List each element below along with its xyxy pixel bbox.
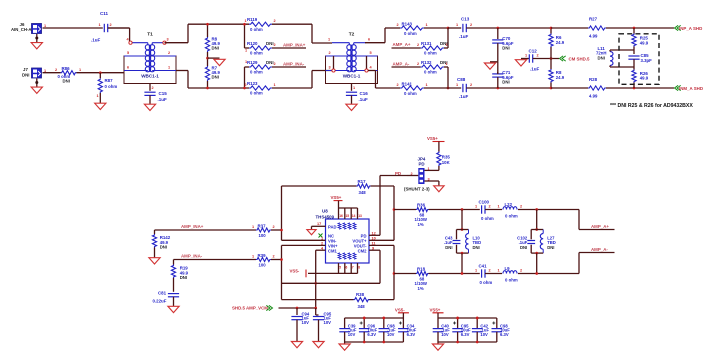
svg-text:2: 2 — [470, 23, 472, 27]
svg-text:1: 1 — [525, 54, 527, 58]
svg-text:6.3V: 6.3V — [407, 332, 416, 337]
svg-text:100: 100 — [259, 233, 267, 238]
svg-text:15: 15 — [346, 214, 350, 218]
svg-text:.1uF: .1uF — [91, 38, 101, 43]
svg-text:10K: 10K — [442, 160, 451, 165]
svg-text:0 ohm: 0 ohm — [250, 27, 263, 32]
svg-text:10V: 10V — [324, 320, 332, 325]
svg-text:WBC1-1: WBC1-1 — [343, 74, 361, 79]
svg-text:.1uF: .1uF — [459, 94, 469, 99]
svg-text:R39: R39 — [258, 253, 267, 258]
svg-text:6: 6 — [127, 66, 129, 70]
svg-text:DNI: DNI — [473, 245, 480, 250]
svg-text:.1uF: .1uF — [158, 97, 168, 102]
svg-text:2: 2 — [537, 54, 539, 58]
svg-text:2: 2 — [55, 68, 57, 72]
svg-text:C11: C11 — [100, 11, 109, 16]
svg-text:AIN_CH-A: AIN_CH-A — [11, 27, 32, 32]
svg-text:8: 8 — [358, 265, 360, 269]
svg-text:1: 1 — [328, 38, 330, 42]
svg-text:C15: C15 — [159, 91, 168, 96]
svg-text:6.3V: 6.3V — [500, 332, 509, 337]
svg-text:17: 17 — [317, 222, 321, 226]
svg-text:2: 2 — [245, 83, 247, 87]
svg-text:R27: R27 — [589, 17, 598, 22]
svg-text:AMP_INA-: AMP_INA- — [181, 254, 203, 259]
svg-text:DNI: DNI — [266, 60, 274, 65]
svg-text:13: 13 — [358, 214, 362, 218]
svg-text:VS5-: VS5- — [290, 268, 300, 273]
svg-text:0 ohm: 0 ohm — [250, 91, 263, 96]
svg-text:T2: T2 — [349, 32, 355, 38]
svg-text:R119: R119 — [247, 17, 258, 22]
svg-text:U8: U8 — [322, 209, 328, 214]
svg-text:T1: T1 — [147, 32, 153, 38]
svg-text:1: 1 — [446, 43, 448, 47]
svg-text:10V: 10V — [387, 332, 395, 337]
svg-text:C88: C88 — [457, 77, 466, 82]
svg-text:INM_A SHD: INM_A SHD — [679, 86, 703, 91]
svg-text:0 ohm: 0 ohm — [250, 51, 263, 56]
svg-text:R141: R141 — [402, 81, 413, 86]
svg-text:1: 1 — [475, 269, 477, 273]
svg-text:0 ohm: 0 ohm — [250, 70, 263, 75]
svg-text:WBC1-1: WBC1-1 — [141, 74, 159, 79]
svg-text:CM2: CM2 — [358, 248, 368, 253]
svg-text:2: 2 — [329, 51, 331, 55]
svg-text:49.9: 49.9 — [640, 40, 649, 45]
svg-text:1: 1 — [245, 19, 247, 23]
svg-text:6.3V: 6.3V — [461, 332, 470, 337]
svg-text:7: 7 — [352, 265, 354, 269]
svg-text:2: 2 — [274, 43, 276, 47]
svg-text:VS5+: VS5+ — [430, 307, 441, 312]
svg-text:4.99: 4.99 — [589, 94, 598, 99]
svg-text:3: 3 — [167, 38, 169, 42]
svg-text:DNI: DNI — [547, 245, 554, 250]
svg-text:16: 16 — [339, 214, 343, 218]
svg-text:1%: 1% — [418, 222, 424, 227]
svg-text:1: 1 — [252, 225, 254, 229]
svg-text:L22: L22 — [505, 202, 513, 207]
svg-text:R87: R87 — [105, 78, 114, 83]
svg-text:0 ohm: 0 ohm — [424, 51, 437, 56]
svg-text:DNI: DNI — [212, 46, 219, 51]
svg-text:2: 2 — [168, 51, 170, 55]
svg-text:0.22uF: 0.22uF — [153, 299, 167, 304]
svg-text:R129: R129 — [247, 60, 258, 65]
svg-text:0 ohm: 0 ohm — [480, 280, 493, 285]
svg-text:AMP_A+: AMP_A+ — [591, 224, 609, 229]
svg-text:100: 100 — [259, 262, 267, 267]
svg-text:R123: R123 — [247, 81, 258, 86]
svg-text:R131: R131 — [421, 41, 432, 46]
svg-text:DNI: DNI — [502, 46, 509, 51]
svg-text:1: 1 — [456, 83, 458, 87]
svg-text:1: 1 — [498, 205, 500, 209]
svg-text:AMP_INA+: AMP_INA+ — [181, 224, 204, 229]
svg-text:R86: R86 — [62, 66, 71, 71]
svg-text:DNI: DNI — [598, 55, 605, 60]
svg-text:3: 3 — [329, 66, 331, 70]
svg-text:1: 1 — [168, 66, 170, 70]
svg-text:PAD: PAD — [328, 224, 337, 229]
svg-text:2: 2 — [274, 19, 276, 23]
svg-text:5: 5 — [339, 265, 341, 269]
svg-text:1: 1 — [426, 23, 428, 27]
svg-text:2: 2 — [489, 269, 491, 273]
svg-text:1: 1 — [252, 255, 254, 259]
svg-text:CM SHD.5: CM SHD.5 — [569, 56, 591, 61]
svg-text:1: 1 — [97, 94, 99, 98]
svg-text:DNI: DNI — [445, 245, 452, 250]
svg-text:R35: R35 — [442, 155, 451, 160]
svg-text:PD: PD — [419, 161, 425, 166]
svg-text:10V: 10V — [480, 332, 488, 337]
svg-text:3.3pF: 3.3pF — [641, 58, 653, 63]
svg-text:SHD.5 AMP_VCM: SHD.5 AMP_VCM — [232, 306, 268, 311]
svg-text:0 ohm: 0 ohm — [424, 70, 437, 75]
svg-text:49.9: 49.9 — [640, 76, 649, 81]
svg-text:1: 1 — [99, 23, 101, 27]
svg-text:.1uF: .1uF — [530, 67, 540, 72]
svg-text:C81: C81 — [158, 291, 167, 296]
svg-text:THS4509: THS4509 — [316, 214, 335, 219]
svg-text:10V: 10V — [441, 332, 449, 337]
svg-text:348: 348 — [358, 304, 366, 309]
svg-text:*** DNI R25 & R26 for AD9432BX: *** DNI R25 & R26 for AD9432BXX — [610, 103, 693, 109]
svg-text:AMP_INA+: AMP_INA+ — [283, 43, 306, 48]
svg-text:R17: R17 — [358, 179, 367, 184]
svg-text:2: 2 — [397, 83, 399, 87]
svg-text:R28: R28 — [589, 77, 598, 82]
svg-text:0 ohm: 0 ohm — [505, 214, 518, 219]
svg-text:.1uF: .1uF — [459, 34, 469, 39]
svg-text:2: 2 — [520, 269, 522, 273]
svg-text:.1uF: .1uF — [359, 97, 369, 102]
svg-text:VS5-: VS5- — [395, 307, 405, 312]
svg-text:1: 1 — [79, 68, 81, 72]
svg-text:1: 1 — [274, 83, 276, 87]
svg-text:1: 1 — [475, 205, 477, 209]
svg-text:C41: C41 — [479, 263, 488, 268]
svg-text:AMP_A-: AMP_A- — [591, 247, 608, 252]
svg-text:R37: R37 — [258, 224, 267, 229]
svg-text:4.99: 4.99 — [589, 34, 598, 39]
svg-text:6: 6 — [346, 265, 348, 269]
svg-text:VS5+: VS5+ — [427, 136, 438, 141]
svg-text:348: 348 — [359, 190, 367, 195]
svg-text:DNI: DNI — [180, 275, 187, 280]
svg-text:R36: R36 — [417, 203, 426, 208]
svg-text:1%: 1% — [418, 286, 424, 291]
svg-text:DNI: DNI — [22, 73, 29, 78]
svg-text:2: 2 — [152, 86, 154, 90]
svg-text:2: 2 — [520, 205, 522, 209]
svg-text:10V: 10V — [348, 332, 356, 337]
svg-text:R132: R132 — [421, 60, 432, 65]
svg-text:14: 14 — [352, 214, 356, 218]
svg-text:5: 5 — [370, 51, 372, 55]
svg-text:0 ohm: 0 ohm — [404, 91, 417, 96]
svg-text:1: 1 — [426, 83, 428, 87]
svg-text:L9: L9 — [505, 266, 511, 271]
svg-text:2: 2 — [489, 205, 491, 209]
svg-text:R18: R18 — [417, 267, 426, 272]
svg-text:2: 2 — [274, 62, 276, 66]
svg-text:6: 6 — [368, 38, 370, 42]
svg-text:CM1: CM1 — [328, 248, 338, 253]
svg-text:2: 2 — [110, 23, 112, 27]
svg-text:DNI: DNI — [212, 75, 219, 80]
svg-text:DNI: DNI — [63, 78, 70, 83]
svg-text:2: 2 — [273, 255, 275, 259]
svg-text:1: 1 — [498, 269, 500, 273]
svg-text:2: 2 — [273, 225, 275, 229]
svg-text:INP_A SHD: INP_A SHD — [679, 26, 702, 31]
svg-text:(SHUNT 2-3): (SHUNT 2-3) — [404, 186, 430, 191]
svg-text:1: 1 — [456, 23, 458, 27]
svg-text:0 ohm: 0 ohm — [505, 278, 518, 283]
svg-text:1: 1 — [446, 62, 448, 66]
svg-text:1: 1 — [353, 86, 355, 90]
svg-text:DNI: DNI — [520, 245, 527, 250]
svg-text:R38: R38 — [356, 292, 365, 297]
svg-text:0 ohm: 0 ohm — [105, 84, 118, 89]
svg-text:1: 1 — [245, 60, 247, 64]
svg-text:2: 2 — [417, 43, 419, 47]
svg-text:24.9: 24.9 — [556, 75, 565, 80]
svg-text:C16: C16 — [360, 91, 369, 96]
svg-text:C13: C13 — [461, 17, 470, 22]
svg-text:5: 5 — [127, 51, 129, 55]
svg-text:R143: R143 — [402, 21, 413, 26]
svg-text:24.9: 24.9 — [556, 40, 565, 45]
svg-text:0 ohm: 0 ohm — [404, 31, 417, 36]
svg-text:1: 1 — [245, 49, 247, 53]
svg-text:AMP_A-: AMP_A- — [393, 62, 410, 67]
svg-text:VS5+: VS5+ — [331, 195, 342, 200]
svg-text:R120: R120 — [247, 41, 258, 46]
svg-text:J7: J7 — [23, 67, 28, 72]
svg-text:6.3V: 6.3V — [367, 332, 376, 337]
svg-text:2: 2 — [470, 83, 472, 87]
svg-text:DNI: DNI — [266, 41, 274, 46]
svg-text:2: 2 — [417, 62, 419, 66]
svg-text:DNI: DNI — [502, 80, 509, 85]
svg-text:0 ohm: 0 ohm — [481, 216, 494, 221]
svg-text:AMP_INA-: AMP_INA- — [283, 62, 305, 67]
svg-text:AMP_A+: AMP_A+ — [393, 42, 411, 47]
svg-text:10V: 10V — [302, 320, 310, 325]
svg-text:2: 2 — [397, 23, 399, 27]
svg-text:DNI: DNI — [160, 245, 167, 250]
